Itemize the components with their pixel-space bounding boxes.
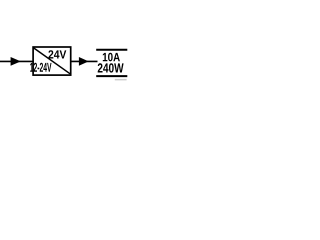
rating top line bbox=[96, 49, 127, 51]
watermark bbox=[115, 79, 127, 81]
rating 240W bbox=[98, 63, 124, 72]
rating 10A bbox=[103, 53, 120, 62]
rating bottom line bbox=[96, 75, 127, 77]
label 12-24V (input) bbox=[30, 63, 51, 72]
output wire bbox=[71, 60, 98, 62]
label 24V (output) bbox=[48, 50, 66, 58]
input arrowhead bbox=[11, 57, 21, 66]
converter box U1 (12-24V to 24V) bbox=[33, 47, 71, 75]
converter diagonal bbox=[34, 48, 71, 74]
input wire bbox=[0, 60, 33, 62]
output arrowhead bbox=[79, 57, 89, 66]
